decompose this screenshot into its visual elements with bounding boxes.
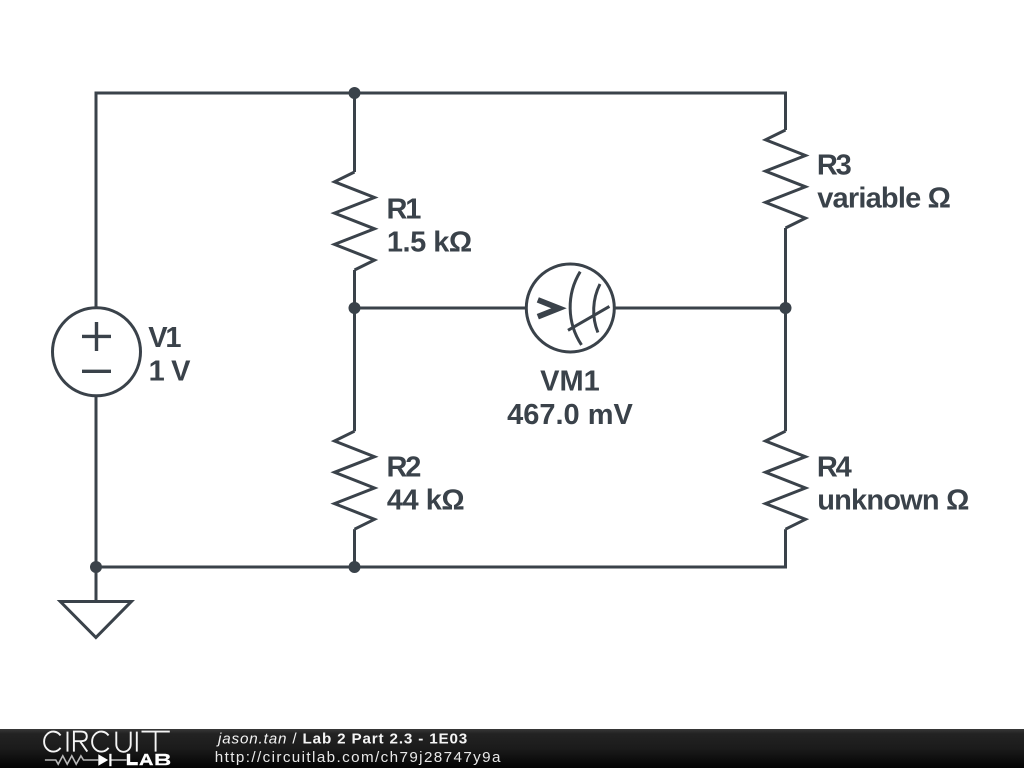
svg-text:R3: R3 <box>817 149 852 181</box>
svg-text:R1: R1 <box>387 193 422 225</box>
svg-text:unknown Ω: unknown Ω <box>817 485 969 517</box>
svg-text:R4: R4 <box>817 451 852 483</box>
svg-text:http://circuitlab.com/ch79j287: http://circuitlab.com/ch79j28747y9a <box>215 749 502 766</box>
svg-text:1 V: 1 V <box>149 355 192 387</box>
svg-text:V1: V1 <box>148 322 181 354</box>
svg-text:R2: R2 <box>387 451 421 483</box>
svg-text:44 kΩ: 44 kΩ <box>387 485 464 517</box>
svg-text:467.0 mV: 467.0 mV <box>507 399 633 431</box>
svg-text:VM1: VM1 <box>540 366 600 398</box>
svg-text:variable Ω: variable Ω <box>817 183 950 215</box>
svg-text:jason.tan / Lab 2 Part 2.3 - 1: jason.tan / Lab 2 Part 2.3 - 1E03 <box>216 731 468 748</box>
svg-text:1.5 kΩ: 1.5 kΩ <box>387 227 472 259</box>
